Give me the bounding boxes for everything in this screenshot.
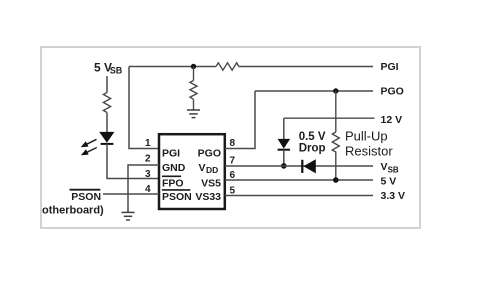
wire PGI rail right segment bbox=[239, 66, 373, 68]
svg-text:PGO: PGO bbox=[198, 148, 221, 160]
svg-text:V: V bbox=[198, 162, 205, 174]
junction dot on VSB rail bbox=[281, 163, 287, 169]
svg-text:1: 1 bbox=[145, 138, 151, 149]
resistor (PGI pull-down) bbox=[190, 81, 197, 100]
wire 3.3 V rail (pin 5 VS33) bbox=[225, 195, 373, 197]
wire pin 8 PGO up to rail bbox=[225, 91, 255, 149]
pull-up resistor R (PGO to 5V) bbox=[335, 91, 337, 132]
wire LED cathode to pin 3 FPO bbox=[107, 144, 158, 179]
net label PSON (active low) bbox=[70, 189, 101, 191]
svg-text:PGO: PGO bbox=[381, 86, 404, 98]
wire dot to pull-down resistor bbox=[193, 67, 195, 81]
svg-text:7: 7 bbox=[230, 155, 236, 166]
wire PGI rail left segment bbox=[129, 66, 216, 68]
LED optocoupler diode bbox=[99, 132, 114, 143]
diode (series in VSB rail) bbox=[301, 160, 303, 173]
U1 pin label PSON (active low) bbox=[162, 189, 190, 191]
svg-text:SB: SB bbox=[388, 165, 399, 174]
svg-text:Resistor: Resistor bbox=[345, 144, 393, 159]
wire 5 V rail (pin 6 VS5) bbox=[225, 179, 373, 181]
svg-text:otherboard): otherboard) bbox=[42, 205, 104, 217]
wire PGO rail bbox=[255, 90, 373, 92]
svg-text:Drop: Drop bbox=[299, 143, 326, 155]
svg-text:12 V: 12 V bbox=[381, 114, 403, 126]
svg-text:SB: SB bbox=[110, 66, 123, 76]
junction dot on PGO rail bbox=[333, 88, 338, 93]
junction dot on 5V rail bbox=[333, 177, 339, 183]
svg-text:3.3 V: 3.3 V bbox=[381, 190, 406, 202]
LED light emission arrows bbox=[85, 139, 97, 145]
svg-text:PSON: PSON bbox=[71, 191, 101, 203]
resistor (5 VSB series) bbox=[103, 93, 110, 113]
svg-text:2: 2 bbox=[145, 154, 151, 165]
wire pin 1 PGI to top rail bbox=[129, 67, 158, 149]
IC U1 bbox=[159, 134, 225, 209]
svg-text:PSON: PSON bbox=[162, 191, 192, 203]
wire from 5 VSB down to resistor bbox=[106, 76, 108, 93]
wire pin 2 GND to ground bbox=[128, 165, 159, 212]
diode 0.5 V drop (12V to VDD) bbox=[283, 118, 285, 139]
ground (PGI pull-down) bbox=[187, 110, 200, 118]
svg-text:GND: GND bbox=[162, 162, 186, 174]
svg-text:PGI: PGI bbox=[162, 148, 180, 160]
wire VSB rail (pin 7 VDD) bbox=[225, 165, 373, 167]
svg-text:PGI: PGI bbox=[381, 61, 399, 73]
ground (GND pin 2) bbox=[122, 212, 135, 220]
wire resistor to LED bbox=[106, 113, 108, 133]
svg-text:DD: DD bbox=[206, 165, 218, 175]
resistor (series in PGI rail) bbox=[216, 63, 239, 70]
U1 pin label FPO (active low) bbox=[162, 175, 181, 177]
svg-text:5 V: 5 V bbox=[381, 176, 397, 188]
svg-text:VS33: VS33 bbox=[195, 191, 221, 203]
svg-text:Pull-Up: Pull-Up bbox=[345, 129, 388, 144]
wire 12 V rail bbox=[284, 117, 375, 119]
svg-text:3: 3 bbox=[145, 169, 151, 180]
svg-text:8: 8 bbox=[230, 138, 236, 149]
svg-text:0.5 V: 0.5 V bbox=[299, 131, 326, 143]
border frame (decorative) bbox=[41, 47, 420, 228]
wire pin 4 PSON to label bbox=[103, 193, 159, 195]
svg-text:FPO: FPO bbox=[162, 177, 184, 189]
svg-text:VS5: VS5 bbox=[201, 177, 221, 189]
junction dot on PGI rail bbox=[191, 64, 196, 69]
svg-text:V: V bbox=[381, 161, 388, 173]
wire resistor to ground bbox=[193, 99, 195, 110]
